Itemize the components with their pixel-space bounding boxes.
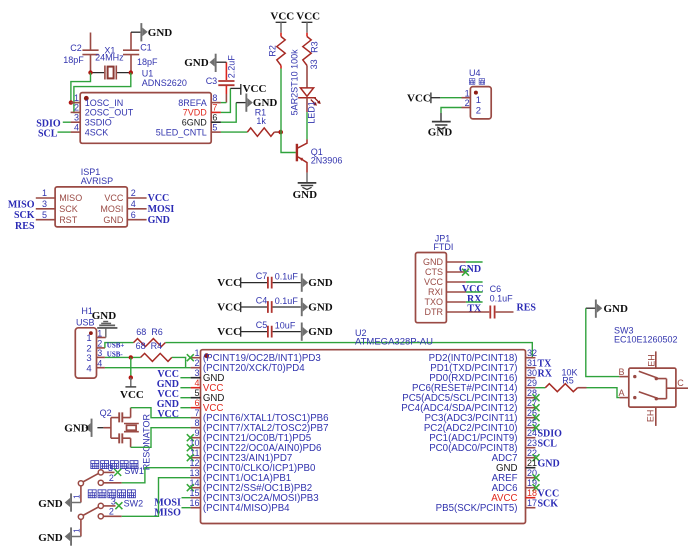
svg-text:30: 30 bbox=[527, 368, 537, 378]
JP1 pin GND bbox=[423, 257, 483, 267]
svg-text:SW2: SW2 bbox=[124, 499, 144, 509]
ground flag GND (SW2) bbox=[38, 527, 81, 545]
svg-text:RES: RES bbox=[517, 303, 537, 314]
H1 pin 4 bbox=[97, 358, 191, 368]
svg-text:VCC: VCC bbox=[120, 389, 144, 401]
SW3 pin EH bottom bbox=[645, 407, 655, 426]
U2 pin 16 PB4 bbox=[182, 498, 291, 514]
ISP1 pin 4 MOSI bbox=[100, 199, 146, 214]
svg-text:VCC: VCC bbox=[217, 277, 241, 289]
H1 pin 3 USB- bbox=[97, 348, 141, 358]
svg-text:24: 24 bbox=[527, 428, 537, 438]
transistor Q1 2N3906 bbox=[297, 139, 342, 172]
svg-text:3SDIO: 3SDIO bbox=[85, 117, 112, 127]
U2 pin 21 GND bbox=[496, 458, 560, 474]
U2 pin 14 PB2 bbox=[187, 478, 312, 494]
svg-text:6: 6 bbox=[194, 398, 199, 408]
svg-text:Q2: Q2 bbox=[100, 408, 112, 418]
svg-text:6GND: 6GND bbox=[182, 117, 208, 127]
U4 pin 1 bbox=[462, 88, 471, 98]
svg-text:18: 18 bbox=[527, 488, 537, 498]
svg-text:31: 31 bbox=[527, 358, 537, 368]
connector JP1 FTDI bbox=[416, 234, 454, 323]
svg-text:2: 2 bbox=[476, 106, 481, 117]
svg-text:MISO: MISO bbox=[59, 193, 82, 203]
svg-text:4: 4 bbox=[97, 358, 102, 368]
U2 pin 17 PB5 bbox=[436, 498, 559, 514]
svg-text:2: 2 bbox=[109, 506, 114, 516]
switch SW1 micro switch left bbox=[78, 461, 144, 503]
svg-text:LED1: LED1 bbox=[307, 101, 317, 124]
ground flag GND (Q2) bbox=[64, 419, 111, 437]
svg-text:2: 2 bbox=[131, 188, 136, 198]
U1 pin 3 SDIO bbox=[71, 113, 112, 128]
U2 pin 32 PD2 bbox=[429, 348, 537, 364]
svg-text:6: 6 bbox=[131, 210, 136, 220]
svg-text:24MHz: 24MHz bbox=[95, 53, 124, 63]
U2 pin 2 PD4 bbox=[191, 358, 306, 374]
H1 pin 1 bbox=[97, 328, 106, 338]
switch SW2 micro switch right bbox=[78, 490, 143, 537]
svg-text:18pF: 18pF bbox=[63, 55, 84, 65]
wire XTAL2 (Q2 to U2 pin8) bbox=[131, 428, 191, 448]
svg-text:C3: C3 bbox=[206, 76, 218, 86]
svg-text:4: 4 bbox=[194, 378, 199, 388]
svg-text:RES: RES bbox=[15, 221, 35, 232]
ISP1 pin 1 MISO bbox=[36, 188, 82, 203]
connector U4 power bbox=[469, 68, 491, 119]
svg-text:C5: C5 bbox=[256, 320, 268, 330]
U2 pin 27 PC4 bbox=[401, 398, 539, 414]
U2 pin 25 PC2 bbox=[424, 418, 540, 434]
capacitor C5 row: power flag VCC bbox=[217, 326, 267, 338]
svg-text:VCC: VCC bbox=[243, 83, 267, 95]
svg-text:GND: GND bbox=[92, 310, 117, 322]
wire SW2 to U2 pin13 bbox=[122, 478, 191, 517]
svg-text:C1: C1 bbox=[140, 42, 152, 52]
U2 pin 8 PB7 bbox=[191, 418, 329, 434]
capacitor C7 row: power flag VCC bbox=[217, 277, 267, 289]
svg-text:GND: GND bbox=[604, 303, 629, 315]
svg-text:C2: C2 bbox=[70, 43, 82, 53]
svg-text:VCC: VCC bbox=[296, 11, 320, 23]
IC U2 box ATMEGA328P-AU bbox=[201, 328, 526, 524]
svg-text:13: 13 bbox=[189, 468, 199, 478]
LED LED1 bbox=[298, 88, 321, 139]
wire R5 to SW3 A bbox=[587, 388, 620, 398]
U1 pin 2 OSC_OUT bbox=[71, 103, 134, 118]
svg-text:GND: GND bbox=[428, 126, 453, 138]
svg-text:7VDD: 7VDD bbox=[183, 108, 208, 118]
svg-text:RX: RX bbox=[538, 368, 553, 379]
U2 pin 11 PD7 bbox=[187, 448, 292, 464]
ISP1 pin 3 SCK bbox=[36, 199, 78, 214]
crystal X1 bbox=[91, 45, 131, 79]
svg-text:5: 5 bbox=[42, 210, 47, 220]
U1 pin 6 GND bbox=[182, 113, 221, 128]
JP1 pin VCC bbox=[424, 277, 483, 287]
capacitor C4 row: power flag VCC bbox=[217, 302, 267, 314]
ground flag GND (C7) bbox=[301, 274, 333, 292]
resistor R3 33 bbox=[303, 33, 320, 88]
svg-text:2OSC_OUT: 2OSC_OUT bbox=[85, 108, 134, 118]
svg-text:3: 3 bbox=[86, 353, 91, 364]
JP1 pin TXO bbox=[424, 297, 482, 307]
junction node (C2/X1) bbox=[88, 70, 92, 74]
power flag VCC (USB) bbox=[120, 378, 144, 401]
svg-text:3: 3 bbox=[97, 348, 102, 358]
ground flag GND (C1) bbox=[131, 23, 172, 41]
resistor R2 5AR2ST10 100k bbox=[267, 33, 299, 116]
svg-text:SCK: SCK bbox=[59, 204, 78, 214]
svg-text:4: 4 bbox=[74, 122, 79, 132]
svg-text:29: 29 bbox=[527, 378, 537, 388]
resistor R4 68 bbox=[136, 341, 186, 368]
svg-text:SCK: SCK bbox=[14, 210, 35, 221]
svg-text:MOSI: MOSI bbox=[148, 204, 175, 215]
U1 pin 7 VDD bbox=[183, 103, 221, 118]
svg-text:C: C bbox=[677, 378, 684, 388]
U2 pin 1 PD3 bbox=[187, 348, 321, 364]
wire OSC_OUT bbox=[74, 73, 131, 113]
svg-text:1: 1 bbox=[86, 333, 91, 344]
U2 pin 24 PC1 bbox=[429, 428, 562, 444]
svg-text:3: 3 bbox=[111, 496, 116, 506]
U2 pin 10 PD6 bbox=[187, 438, 322, 454]
op-amp U1 box ADNS2620 bbox=[80, 68, 211, 143]
svg-text:32: 32 bbox=[527, 348, 537, 358]
svg-text:ADNS2620: ADNS2620 bbox=[142, 78, 187, 88]
svg-text:SCL: SCL bbox=[38, 128, 58, 139]
svg-text:2: 2 bbox=[97, 339, 102, 349]
svg-text:4: 4 bbox=[131, 199, 136, 209]
svg-text:2.2uF: 2.2uF bbox=[227, 55, 237, 79]
SW3 internal contacts bbox=[633, 371, 676, 400]
svg-text:U4: U4 bbox=[469, 68, 481, 78]
U2 pin 18 AVCC bbox=[491, 488, 559, 504]
svg-text:21: 21 bbox=[527, 458, 537, 468]
ISP1 pin 5 RST bbox=[36, 210, 78, 225]
svg-text:3: 3 bbox=[42, 199, 47, 209]
svg-text:12: 12 bbox=[189, 458, 199, 468]
SW3 pin C bbox=[676, 378, 688, 388]
power flag VCC (U4) bbox=[407, 92, 462, 104]
svg-text:5AR2ST10 100k: 5AR2ST10 100k bbox=[290, 49, 300, 116]
svg-text:A: A bbox=[619, 388, 625, 398]
ground flag GND (C5) bbox=[301, 323, 333, 341]
rotary encoder SW3 EC10E1260502 bbox=[614, 326, 678, 407]
svg-text:15: 15 bbox=[189, 488, 199, 498]
svg-text:TXO: TXO bbox=[424, 297, 443, 307]
svg-text:7: 7 bbox=[194, 408, 199, 418]
junction node (USB-) bbox=[129, 355, 133, 359]
junction node (R1/R2 net) bbox=[278, 130, 283, 135]
resistor R6 68 bbox=[134, 327, 166, 347]
ground flag GND (SW3) bbox=[586, 300, 628, 318]
U2 pin 4 VCC bbox=[157, 378, 224, 394]
svg-text:GND: GND bbox=[538, 458, 560, 469]
resonator Q2 bbox=[100, 408, 152, 471]
svg-text:VCC: VCC bbox=[270, 11, 294, 23]
svg-text:4: 4 bbox=[86, 363, 91, 374]
junction node (C1/X1) bbox=[129, 70, 133, 74]
ISP1 pin 2 VCC bbox=[104, 188, 146, 203]
svg-text:MOSI: MOSI bbox=[100, 204, 123, 214]
U2 pin 12 PB0 bbox=[189, 458, 316, 474]
svg-text:1: 1 bbox=[194, 348, 199, 358]
svg-text:9: 9 bbox=[194, 428, 199, 438]
junction node (pin1) bbox=[69, 100, 73, 104]
svg-text:ATMEGA328P-AU: ATMEGA328P-AU bbox=[355, 336, 433, 347]
svg-text:C4: C4 bbox=[256, 295, 268, 305]
svg-text:RST: RST bbox=[59, 215, 78, 225]
svg-text:RESONATOR: RESONATOR bbox=[142, 414, 152, 471]
U1 pin 5 LED_CNTL bbox=[156, 122, 221, 137]
ground flag GND (U1 GND) bbox=[221, 94, 278, 123]
resistor R1 1k bbox=[221, 107, 281, 136]
U2 pin 3 GND bbox=[157, 368, 224, 384]
ground GND (H1) bbox=[92, 310, 118, 338]
svg-text:2: 2 bbox=[74, 103, 79, 113]
svg-text:C7: C7 bbox=[256, 271, 268, 281]
capacitor C3 bbox=[206, 55, 237, 103]
capacitor C6 0.1uF bbox=[490, 284, 514, 318]
svg-text:0.1uF: 0.1uF bbox=[275, 271, 299, 281]
wire USB D+ net to U2 pin32 bbox=[165, 343, 532, 358]
svg-text:1: 1 bbox=[73, 528, 82, 533]
JP1 pin CTS bbox=[425, 267, 469, 277]
svg-text:1: 1 bbox=[476, 95, 481, 106]
svg-text:8: 8 bbox=[212, 93, 217, 103]
U2 pin 22 ADC7 bbox=[492, 448, 540, 464]
U2 pin 6 VCC bbox=[157, 398, 224, 414]
junction node (VCC drop) bbox=[129, 375, 133, 379]
svg-text:33: 33 bbox=[309, 59, 319, 69]
connector ISP1 AVRISP bbox=[55, 167, 127, 227]
net label SDIO bbox=[36, 118, 70, 129]
svg-text:GND: GND bbox=[308, 326, 333, 338]
wire GND to SW3 B bbox=[586, 308, 620, 376]
U2 pin 23 PC0 bbox=[429, 438, 557, 454]
ground flag GND (SW1) bbox=[38, 493, 81, 511]
resistor R5 10K bbox=[535, 367, 586, 391]
wire SW1 to U2 pin12 bbox=[122, 468, 191, 483]
capacitor C7 0.1uF bbox=[256, 271, 301, 289]
svg-text:R5: R5 bbox=[562, 375, 574, 385]
svg-text:3: 3 bbox=[74, 113, 79, 123]
U2 pin 13 PB1 bbox=[189, 468, 291, 484]
U1 pin 8 REFA bbox=[178, 93, 221, 108]
svg-text:R2: R2 bbox=[267, 45, 277, 57]
svg-text:VCC: VCC bbox=[217, 302, 241, 314]
net label SCL bbox=[38, 128, 71, 139]
svg-text:U1: U1 bbox=[142, 68, 154, 78]
wire VCC drop (USB) bbox=[130, 357, 132, 377]
svg-text:PB5(SCK/PCINT5): PB5(SCK/PCINT5) bbox=[436, 503, 518, 514]
svg-text:23: 23 bbox=[527, 438, 537, 448]
svg-text:1OSC_IN: 1OSC_IN bbox=[85, 98, 124, 108]
svg-text:SCK: SCK bbox=[538, 498, 559, 509]
svg-text:GND: GND bbox=[64, 423, 89, 435]
ground flag GND (C3) bbox=[184, 54, 226, 72]
svg-text:VCC: VCC bbox=[407, 92, 431, 104]
svg-text:VCC: VCC bbox=[104, 193, 124, 203]
svg-text:1: 1 bbox=[74, 93, 79, 103]
capacitor C5 10uF bbox=[256, 320, 301, 338]
svg-text:GND: GND bbox=[103, 215, 124, 225]
JP1 pin DTR bbox=[425, 307, 490, 317]
U2 pin 30 PD0 bbox=[429, 368, 553, 384]
svg-text:1: 1 bbox=[42, 188, 47, 198]
svg-text:8REFA: 8REFA bbox=[178, 98, 207, 108]
svg-text:R3: R3 bbox=[310, 41, 320, 53]
svg-text:GND: GND bbox=[308, 277, 333, 289]
JP1 pin RXI bbox=[428, 287, 483, 297]
svg-text:68 R4: 68 R4 bbox=[136, 341, 163, 351]
SW3 pin EH top bbox=[647, 351, 657, 368]
svg-text:FTDI: FTDI bbox=[433, 242, 453, 252]
svg-text:SW1: SW1 bbox=[124, 466, 144, 476]
capacitor C2 bbox=[63, 33, 98, 73]
svg-text:1: 1 bbox=[73, 494, 82, 499]
svg-text:VCC: VCC bbox=[148, 193, 170, 204]
svg-text:RXI: RXI bbox=[428, 287, 443, 297]
svg-text:6: 6 bbox=[212, 113, 217, 123]
svg-text:GND: GND bbox=[148, 27, 173, 39]
svg-text:3: 3 bbox=[194, 368, 199, 378]
U2 pin 15 PB3 bbox=[182, 488, 319, 504]
svg-text:GND: GND bbox=[423, 257, 444, 267]
svg-text:GND: GND bbox=[308, 302, 333, 314]
svg-text:VCC: VCC bbox=[217, 326, 241, 338]
svg-text:2: 2 bbox=[194, 358, 199, 368]
power flag VCC (U1 VDD) bbox=[221, 83, 267, 113]
U2 pin 26 PC3 bbox=[425, 408, 540, 424]
svg-text:GND: GND bbox=[38, 498, 63, 510]
svg-text:8: 8 bbox=[194, 418, 199, 428]
svg-text:GND: GND bbox=[38, 532, 63, 544]
svg-text:VCC: VCC bbox=[424, 277, 444, 287]
capacitor C1 bbox=[123, 32, 158, 72]
svg-text:1: 1 bbox=[465, 88, 470, 98]
wire R2 to Q1 base bbox=[280, 66, 282, 69]
svg-text:18pF: 18pF bbox=[137, 57, 158, 67]
ground GND (Q1) bbox=[293, 173, 318, 201]
svg-text:17: 17 bbox=[527, 498, 537, 508]
svg-text:GND: GND bbox=[293, 189, 318, 201]
svg-text:VCC: VCC bbox=[157, 409, 179, 420]
svg-text:68 R6: 68 R6 bbox=[136, 327, 163, 337]
SW3 pin A bbox=[619, 388, 629, 398]
svg-text:EC10E1260502: EC10E1260502 bbox=[614, 335, 678, 345]
U2 pin 31 PD1 bbox=[430, 358, 552, 374]
svg-text:(PCINT4/MISO)PB4: (PCINT4/MISO)PB4 bbox=[203, 503, 290, 514]
svg-text:1: 1 bbox=[97, 328, 102, 338]
connector H1 USB bbox=[75, 306, 96, 378]
U1 pin 1 OSC_IN bbox=[71, 93, 124, 108]
power flag VCC (R2) bbox=[270, 11, 294, 33]
capacitor C4 0.1uF bbox=[256, 295, 301, 313]
svg-text:TX: TX bbox=[467, 304, 482, 315]
svg-text:5LED_CNTL: 5LED_CNTL bbox=[156, 127, 207, 137]
svg-text:10uF: 10uF bbox=[275, 320, 296, 330]
SW3 pin B bbox=[619, 367, 629, 377]
svg-text:7: 7 bbox=[212, 103, 217, 113]
svg-text:4SCK: 4SCK bbox=[85, 127, 109, 137]
U1 pin 4 SCK bbox=[71, 122, 109, 137]
svg-text:3: 3 bbox=[108, 463, 113, 473]
svg-text:0.1uF: 0.1uF bbox=[275, 296, 299, 306]
ISP1 pin 6 GND bbox=[103, 210, 146, 225]
svg-text:5: 5 bbox=[212, 122, 217, 132]
U2 pin 28 PC5 bbox=[402, 388, 539, 404]
power flag VCC (R3) bbox=[296, 11, 320, 33]
U2 pin 9 PD5 bbox=[187, 428, 311, 444]
value CJK dianyuan (U4) bbox=[469, 79, 484, 85]
svg-text:0.1uF: 0.1uF bbox=[490, 294, 514, 304]
svg-text:SCL: SCL bbox=[538, 438, 558, 449]
svg-text:GND: GND bbox=[184, 57, 209, 69]
svg-text:GND: GND bbox=[148, 215, 170, 226]
svg-text:1k: 1k bbox=[256, 116, 266, 126]
svg-text:2: 2 bbox=[465, 98, 470, 108]
svg-text:AVRISP: AVRISP bbox=[81, 176, 113, 186]
U2 pin 20 AREF bbox=[492, 468, 540, 484]
svg-text:USB+: USB+ bbox=[107, 342, 125, 350]
ground GND (U4) bbox=[428, 108, 462, 139]
svg-text:MISO: MISO bbox=[8, 199, 35, 210]
svg-text:5: 5 bbox=[194, 388, 199, 398]
U2 pin 7 PB6 bbox=[157, 408, 328, 424]
U2 pin 19 ADC6 bbox=[492, 478, 540, 494]
svg-text:DTR: DTR bbox=[425, 307, 444, 317]
H1 pin 2 USB+ bbox=[97, 339, 134, 349]
U2 pin 5 GND bbox=[157, 388, 224, 404]
svg-text:CTS: CTS bbox=[425, 267, 443, 277]
wire XTAL1 (Q2 to U2 pin7) bbox=[131, 408, 191, 418]
ground flag GND (C4) bbox=[301, 298, 333, 316]
svg-text:B: B bbox=[619, 367, 625, 377]
wire OSC_IN bbox=[71, 73, 91, 103]
svg-text:EH: EH bbox=[645, 410, 655, 423]
svg-text:16: 16 bbox=[189, 498, 199, 508]
svg-text:USB-: USB- bbox=[107, 351, 124, 359]
svg-text:2N3906: 2N3906 bbox=[311, 156, 343, 166]
svg-text:2: 2 bbox=[109, 473, 114, 483]
U2 pin 29 PC6 bbox=[412, 378, 537, 394]
svg-text:EH: EH bbox=[647, 354, 657, 367]
U4 pin 2 bbox=[462, 98, 471, 108]
